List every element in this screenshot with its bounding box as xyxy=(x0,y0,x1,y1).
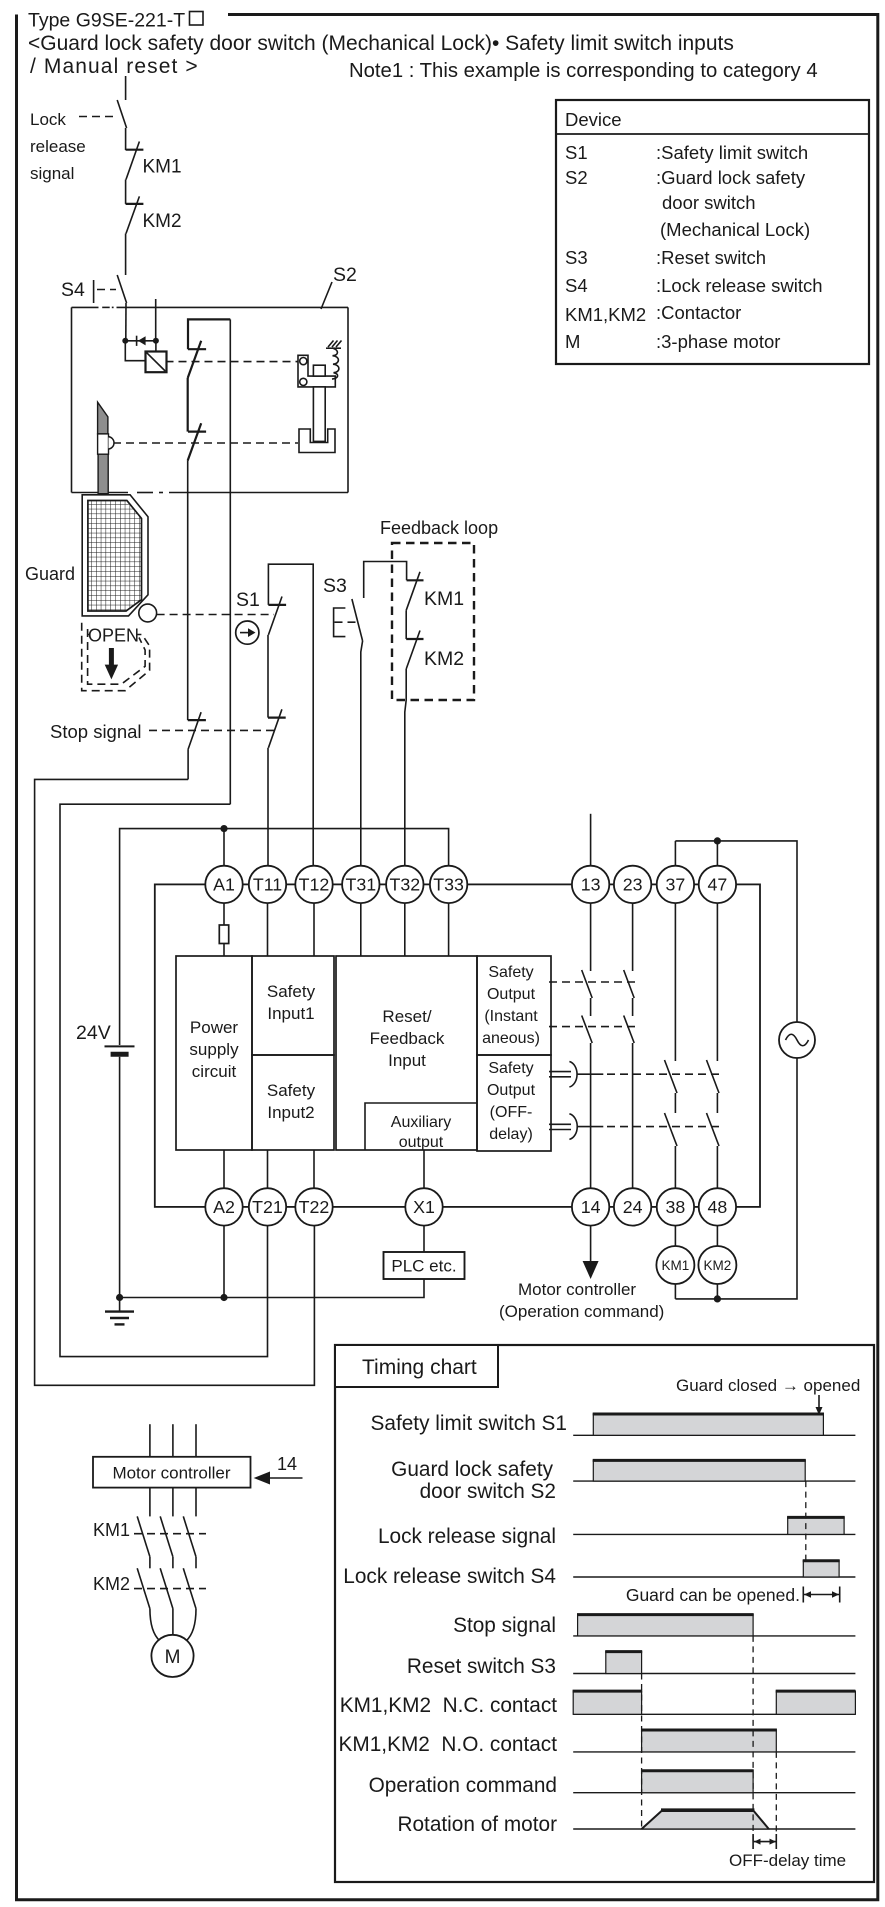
svg-text:T32: T32 xyxy=(389,874,420,894)
svg-text:circuit: circuit xyxy=(192,1062,237,1081)
svg-text:X1: X1 xyxy=(413,1197,435,1217)
svg-text:23: 23 xyxy=(623,874,643,894)
svg-text:Power: Power xyxy=(190,1018,239,1037)
svg-text:Feedback: Feedback xyxy=(370,1029,445,1048)
svg-text:Device: Device xyxy=(565,109,622,130)
svg-text:13: 13 xyxy=(581,874,601,894)
svg-text:Reset/: Reset/ xyxy=(382,1007,431,1026)
svg-text:KM1: KM1 xyxy=(424,588,464,610)
svg-text:door switch: door switch xyxy=(662,192,756,213)
svg-text:Reset switch S3: Reset switch S3 xyxy=(407,1655,556,1678)
svg-text::Guard lock safety: :Guard lock safety xyxy=(656,167,806,188)
svg-text:A1: A1 xyxy=(213,874,235,894)
svg-text:S3: S3 xyxy=(565,247,588,268)
svg-text:Motor controller: Motor controller xyxy=(518,1280,636,1299)
svg-text:M: M xyxy=(565,331,580,352)
svg-text:S2: S2 xyxy=(565,167,588,188)
svg-text:PLC etc.: PLC etc. xyxy=(391,1257,456,1276)
svg-text:KM1,KM2 N.C. contact: KM1,KM2 N.C. contact xyxy=(340,1694,558,1717)
svg-text:Lock: Lock xyxy=(30,110,66,129)
svg-text:KM1: KM1 xyxy=(143,157,182,178)
svg-text:Guard can be opened.: Guard can be opened. xyxy=(626,1585,800,1605)
svg-text:Auxiliary: Auxiliary xyxy=(391,1114,451,1131)
svg-text:Lock release signal: Lock release signal xyxy=(378,1525,556,1548)
svg-text:S3: S3 xyxy=(323,575,347,597)
svg-text:OPEN: OPEN xyxy=(88,626,139,646)
svg-text:KM1: KM1 xyxy=(662,1258,690,1273)
svg-text:<Guard lock safety door switch: <Guard lock safety door switch (Mechanic… xyxy=(28,32,734,55)
svg-text:24V: 24V xyxy=(76,1022,111,1044)
svg-text:(Operation command): (Operation command) xyxy=(499,1302,664,1321)
svg-text:T22: T22 xyxy=(299,1197,330,1217)
svg-text:14: 14 xyxy=(277,1454,297,1474)
svg-text:Safety limit switch S1: Safety limit switch S1 xyxy=(371,1412,567,1435)
svg-text:24: 24 xyxy=(623,1197,643,1217)
svg-text:Rotation of motor: Rotation of motor xyxy=(397,1813,557,1836)
svg-text:S2: S2 xyxy=(333,264,357,286)
svg-text:38: 38 xyxy=(666,1197,686,1217)
svg-text:(OFF-: (OFF- xyxy=(490,1104,533,1121)
svg-text:A2: A2 xyxy=(213,1197,235,1217)
svg-text:(Instant: (Instant xyxy=(484,1008,538,1025)
svg-text:output: output xyxy=(399,1134,444,1151)
svg-text:Safety: Safety xyxy=(267,1081,316,1100)
svg-text:Guard lock safety: Guard lock safety xyxy=(391,1458,553,1481)
svg-text:S1: S1 xyxy=(236,589,260,611)
svg-text:OFF-delay time: OFF-delay time xyxy=(729,1851,846,1870)
svg-text:Motor controller: Motor controller xyxy=(112,1464,230,1483)
svg-text:Safety: Safety xyxy=(488,1060,533,1077)
svg-text::Safety limit switch: :Safety limit switch xyxy=(656,142,808,163)
svg-text:KM2: KM2 xyxy=(93,1574,130,1594)
svg-text:Type G9SE-221-T: Type G9SE-221-T xyxy=(28,10,185,32)
svg-text:T33: T33 xyxy=(433,874,464,894)
svg-text:47: 47 xyxy=(708,874,728,894)
svg-text:T21: T21 xyxy=(252,1197,283,1217)
svg-text:Input2: Input2 xyxy=(267,1103,314,1122)
svg-text:release: release xyxy=(30,137,86,156)
svg-text:signal: signal xyxy=(30,164,74,183)
svg-text:Safety: Safety xyxy=(488,964,533,981)
svg-text:Feedback loop: Feedback loop xyxy=(380,518,498,538)
svg-text:supply: supply xyxy=(189,1040,239,1059)
svg-text:Output: Output xyxy=(487,1082,536,1099)
svg-text:Lock release switch S4: Lock release switch S4 xyxy=(343,1565,556,1588)
svg-text:T11: T11 xyxy=(253,874,282,894)
svg-text:S1: S1 xyxy=(565,142,588,163)
svg-text:door switch S2: door switch S2 xyxy=(420,1480,556,1503)
svg-text:S4: S4 xyxy=(61,279,85,301)
svg-text:KM2: KM2 xyxy=(424,648,464,670)
svg-text:Input1: Input1 xyxy=(267,1004,314,1023)
svg-text:37: 37 xyxy=(666,874,686,894)
svg-text:Note1 : This example is corres: Note1 : This example is corresponding to… xyxy=(349,60,818,82)
svg-text:KM2: KM2 xyxy=(143,211,182,232)
svg-text::Contactor: :Contactor xyxy=(656,302,741,323)
svg-text::Reset switch: :Reset switch xyxy=(656,247,766,268)
svg-text:14: 14 xyxy=(581,1197,601,1217)
svg-text:delay): delay) xyxy=(489,1126,533,1143)
svg-text:S4: S4 xyxy=(565,275,588,296)
svg-text:Output: Output xyxy=(487,986,536,1003)
svg-text:Input: Input xyxy=(388,1051,426,1070)
svg-text:Stop signal: Stop signal xyxy=(50,721,142,742)
svg-text::3-phase motor: :3-phase motor xyxy=(656,331,780,352)
svg-text:KM2: KM2 xyxy=(704,1258,732,1273)
svg-text:T31: T31 xyxy=(345,874,376,894)
svg-text:KM1: KM1 xyxy=(93,1520,130,1540)
svg-text:aneous): aneous) xyxy=(482,1030,540,1047)
svg-text:KM1,KM2: KM1,KM2 xyxy=(565,304,646,325)
svg-text:Timing chart: Timing chart xyxy=(362,1356,477,1379)
svg-text:/ Manual reset >: / Manual reset > xyxy=(30,55,199,78)
svg-text:(Mechanical Lock): (Mechanical Lock) xyxy=(660,219,810,240)
svg-text:T12: T12 xyxy=(299,874,330,894)
svg-text:48: 48 xyxy=(708,1197,728,1217)
svg-text:Safety: Safety xyxy=(267,982,316,1001)
svg-text::Lock release switch: :Lock release switch xyxy=(656,275,823,296)
svg-text:Guard closed → opened: Guard closed → opened xyxy=(676,1376,860,1395)
svg-text:Stop signal: Stop signal xyxy=(453,1614,556,1637)
svg-text:Operation command: Operation command xyxy=(369,1774,557,1797)
svg-text:Guard: Guard xyxy=(25,564,75,584)
svg-text:KM1,KM2 N.O. contact: KM1,KM2 N.O. contact xyxy=(339,1733,558,1756)
svg-text:M: M xyxy=(165,1647,181,1668)
